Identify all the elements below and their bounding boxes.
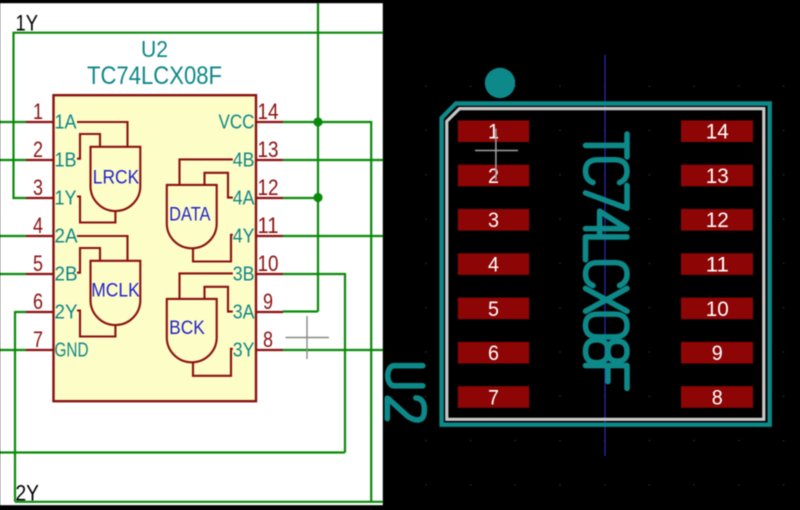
svg-text:1B: 1B: [55, 150, 77, 172]
svg-text:VCC: VCC: [219, 112, 255, 134]
svg-text:1: 1: [488, 120, 499, 144]
svg-text:3A: 3A: [233, 302, 255, 324]
svg-text:13: 13: [706, 164, 729, 188]
svg-text:TC74LCX08F: TC74LCX08F: [87, 62, 222, 90]
svg-text:8: 8: [712, 385, 723, 409]
svg-text:8: 8: [263, 327, 273, 352]
svg-text:5: 5: [33, 251, 43, 276]
svg-text:2: 2: [33, 137, 43, 162]
svg-text:5: 5: [488, 297, 499, 321]
svg-text:7: 7: [488, 385, 499, 409]
svg-text:1A: 1A: [55, 112, 78, 134]
svg-text:11: 11: [258, 213, 279, 238]
svg-text:1Y: 1Y: [16, 11, 39, 36]
svg-text:3Y: 3Y: [233, 340, 255, 362]
svg-text:4B: 4B: [233, 150, 255, 172]
svg-text:2Y: 2Y: [16, 480, 40, 505]
svg-text:4: 4: [33, 213, 43, 238]
svg-text:BCK: BCK: [169, 317, 205, 339]
svg-text:GND: GND: [55, 340, 89, 362]
svg-text:LRCK: LRCK: [93, 167, 139, 189]
svg-text:10: 10: [258, 251, 279, 276]
svg-text:4A: 4A: [233, 188, 255, 210]
svg-text:14: 14: [706, 120, 729, 144]
svg-text:9: 9: [263, 289, 273, 314]
svg-text:11: 11: [706, 253, 729, 277]
svg-text:9: 9: [712, 341, 723, 365]
svg-text:3: 3: [33, 175, 43, 200]
svg-text:2A: 2A: [55, 226, 79, 248]
svg-text:14: 14: [258, 99, 279, 124]
svg-text:6: 6: [488, 341, 499, 365]
svg-text:2Y: 2Y: [55, 302, 78, 324]
svg-text:7: 7: [33, 327, 43, 352]
svg-text:2: 2: [488, 164, 499, 188]
svg-text:13: 13: [258, 137, 279, 162]
svg-text:1: 1: [33, 99, 43, 124]
svg-text:12: 12: [706, 208, 729, 232]
svg-text:12: 12: [258, 175, 279, 200]
svg-text:10: 10: [706, 297, 729, 321]
svg-text:2B: 2B: [55, 264, 78, 286]
svg-text:4Y: 4Y: [233, 226, 255, 248]
svg-text:3B: 3B: [233, 264, 255, 286]
svg-text:DATA: DATA: [169, 203, 210, 225]
svg-text:U2: U2: [141, 36, 168, 62]
svg-text:MCLK: MCLK: [91, 279, 140, 301]
svg-text:6: 6: [33, 289, 43, 314]
svg-text:4: 4: [488, 253, 499, 277]
svg-text:3: 3: [488, 208, 499, 232]
svg-text:1Y: 1Y: [55, 188, 77, 210]
